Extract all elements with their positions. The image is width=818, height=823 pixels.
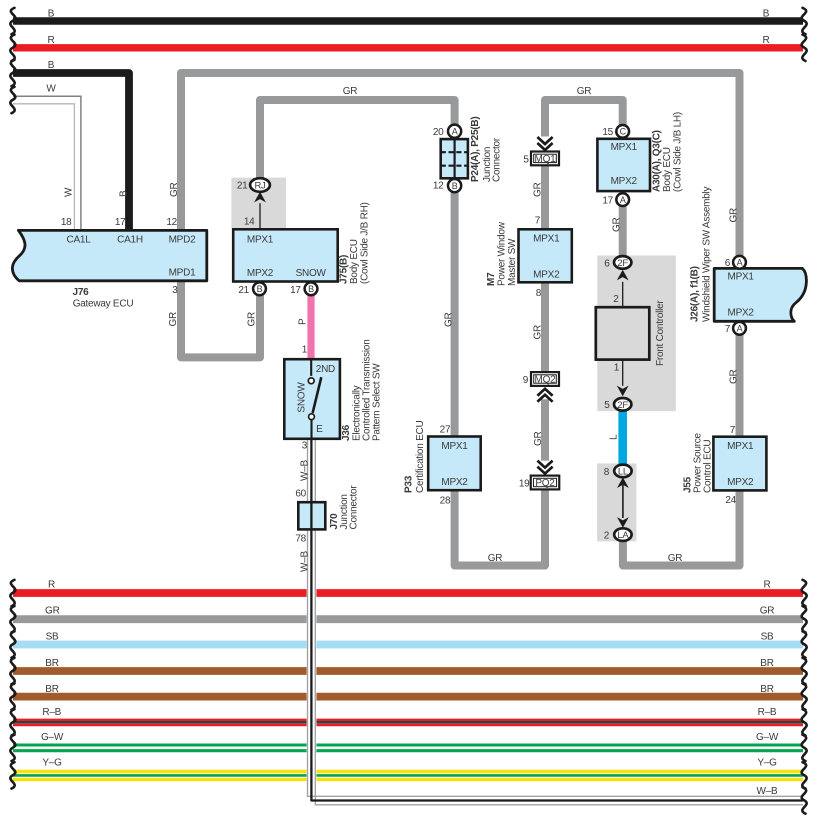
junction 2F top: [614, 256, 631, 269]
svg-text:Gateway ECU: Gateway ECU: [73, 298, 134, 309]
svg-text:Power Window: Power Window: [497, 221, 508, 286]
svg-text:J36: J36: [341, 424, 352, 441]
svg-text:27: 27: [440, 425, 451, 436]
svg-text:B: B: [763, 9, 770, 20]
svg-text:15: 15: [602, 127, 613, 138]
wire break symbol: [10, 35, 15, 61]
svg-text:Connector: Connector: [349, 485, 360, 530]
svg-text:GR: GR: [729, 208, 740, 223]
svg-text:1: 1: [302, 345, 308, 356]
pin circle A at A30: [616, 193, 629, 206]
svg-text:R–B: R–B: [42, 707, 61, 718]
wire R bottom bus: [13, 589, 803, 597]
svg-text:MQ1: MQ1: [535, 154, 557, 165]
svg-text:2: 2: [604, 531, 610, 542]
svg-text:W–B: W–B: [300, 460, 311, 482]
junction RJ with arrow: [259, 203, 261, 229]
svg-text:7: 7: [725, 324, 731, 335]
wire break symbol: [802, 35, 807, 61]
junction connector J70: [298, 502, 325, 529]
svg-text:SB: SB: [46, 632, 59, 643]
svg-text:LL: LL: [618, 467, 628, 478]
svg-text:(Cowl Side J/B LH): (Cowl Side J/B LH): [673, 112, 684, 192]
svg-text:CA1L: CA1L: [66, 234, 91, 245]
wire break symbol: [10, 631, 15, 657]
front controller block: [622, 282, 624, 307]
svg-text:(Cowl Side J/B RH): (Cowl Side J/B RH): [360, 202, 371, 284]
wire break symbol: [802, 709, 807, 735]
shade LL-LA junction region: [597, 463, 636, 541]
svg-text:78: 78: [295, 534, 306, 545]
svg-text:R: R: [764, 579, 771, 590]
wire break symbol: [10, 709, 15, 735]
wire L blue 2F to LL: [618, 411, 627, 465]
svg-text:SNOW: SNOW: [297, 382, 308, 413]
svg-text:GR: GR: [169, 182, 180, 197]
svg-text:7: 7: [730, 425, 736, 436]
svg-text:17: 17: [115, 217, 126, 228]
svg-text:MPX1: MPX1: [728, 272, 755, 283]
svg-text:GR: GR: [444, 312, 455, 327]
svg-text:B: B: [308, 284, 314, 294]
svg-text:MPX2: MPX2: [441, 477, 468, 488]
svg-text:R: R: [48, 579, 55, 590]
junction connector P24(A) P25(B): [441, 139, 468, 178]
svg-text:18: 18: [61, 217, 72, 228]
svg-text:GR: GR: [343, 86, 358, 97]
connector J75(B) Body ECU: [233, 229, 338, 281]
svg-text:2F: 2F: [617, 400, 628, 411]
svg-text:Body ECU: Body ECU: [349, 239, 360, 284]
wire BR bottom bus 2: [13, 693, 803, 701]
wire break symbol: [802, 735, 807, 761]
svg-text:MQ2: MQ2: [535, 375, 557, 386]
svg-text:GR: GR: [533, 431, 544, 446]
svg-text:Pattern Select SW: Pattern Select SW: [372, 363, 383, 441]
svg-text:GR: GR: [533, 182, 544, 197]
svg-text:28: 28: [440, 496, 451, 507]
svg-text:CA1H: CA1H: [117, 234, 143, 245]
wire GR P24 to P33 MPX1: [451, 192, 459, 436]
svg-text:R: R: [763, 35, 770, 46]
svg-text:Y–G: Y–G: [757, 758, 777, 769]
pin circle B at J75 MPX2: [253, 282, 266, 295]
svg-text:GR: GR: [488, 553, 503, 564]
junction 2F bottom: [614, 398, 631, 411]
svg-text:24: 24: [725, 495, 736, 506]
svg-text:W: W: [64, 187, 75, 197]
svg-text:6: 6: [604, 258, 610, 269]
connector M7 Power Window Master SW: [519, 229, 572, 282]
connector J26(A) f1(B) Windshield Wiper SW Assembly: [714, 268, 806, 321]
svg-text:6: 6: [725, 258, 731, 269]
wire P pink J75 SNOW to J36: [307, 295, 314, 359]
shade Front Controller region: [597, 256, 676, 412]
svg-text:17: 17: [290, 285, 301, 296]
svg-text:W–B: W–B: [757, 786, 779, 797]
wire break symbol: [802, 683, 807, 709]
svg-text:GR: GR: [729, 369, 740, 384]
svg-text:PQ2: PQ2: [535, 478, 555, 489]
svg-text:B: B: [48, 9, 55, 20]
wire G-W bottom bus: [13, 744, 803, 747]
svg-text:MPX2: MPX2: [247, 268, 274, 279]
svg-text:BR: BR: [760, 684, 773, 695]
pin circle C at A30: [616, 125, 629, 138]
svg-text:A: A: [620, 195, 626, 205]
wire break symbol: [10, 60, 15, 86]
svg-text:MPX2: MPX2: [728, 308, 755, 319]
svg-text:MPX1: MPX1: [247, 234, 274, 245]
svg-text:8: 8: [536, 288, 542, 299]
svg-text:5: 5: [523, 154, 529, 165]
svg-text:C: C: [620, 127, 627, 137]
svg-text:B: B: [119, 190, 130, 197]
svg-text:J26(A), f1(B): J26(A), f1(B): [690, 266, 701, 322]
svg-text:1: 1: [614, 362, 620, 373]
svg-text:M7: M7: [486, 272, 497, 286]
svg-text:12: 12: [166, 217, 177, 228]
wire break symbol: [10, 658, 15, 684]
svg-text:J76: J76: [73, 287, 90, 298]
shade behind RJ junction: [231, 178, 286, 229]
svg-text:A: A: [737, 324, 743, 334]
svg-text:Body ECU: Body ECU: [662, 147, 673, 192]
svg-text:GR: GR: [577, 86, 592, 97]
pin circle A at J26 top: [733, 256, 746, 269]
svg-text:19: 19: [519, 478, 530, 489]
svg-text:MPX1: MPX1: [727, 441, 754, 452]
svg-text:2F: 2F: [617, 258, 628, 269]
wire break symbol: [802, 762, 807, 788]
svg-text:L: L: [609, 434, 620, 440]
svg-text:R: R: [48, 35, 55, 46]
svg-text:MPD1: MPD1: [169, 268, 196, 279]
wire break symbol: [10, 580, 15, 606]
svg-text:A30(A), Q3(C): A30(A), Q3(C): [652, 130, 663, 192]
shielded junction MQ1: [537, 137, 552, 144]
wire break symbol: [10, 735, 15, 761]
svg-text:GR: GR: [668, 553, 683, 564]
svg-text:W–B: W–B: [300, 551, 311, 573]
wire break symbol: [10, 8, 15, 34]
svg-text:14: 14: [244, 217, 255, 228]
svg-text:MPX1: MPX1: [441, 441, 468, 452]
svg-text:R–B: R–B: [758, 707, 777, 718]
shielded junction PQ2: [537, 461, 552, 468]
svg-text:SB: SB: [761, 632, 774, 643]
svg-text:MPD2: MPD2: [169, 234, 196, 245]
shielded junction MQ2: [531, 372, 559, 386]
wire R-B bottom bus: [13, 719, 803, 721]
svg-text:BR: BR: [760, 658, 773, 669]
svg-text:G–W: G–W: [41, 732, 64, 743]
wire break symbol: [802, 580, 807, 606]
svg-text:J75(B): J75(B): [339, 255, 350, 284]
pin circle B at P24: [448, 179, 461, 192]
svg-text:GR: GR: [612, 217, 623, 232]
svg-text:17: 17: [602, 195, 613, 206]
svg-text:A: A: [737, 258, 743, 268]
pin circle A at P24: [448, 125, 461, 138]
svg-text:LA: LA: [617, 530, 629, 541]
svg-text:GR: GR: [760, 606, 775, 617]
junction LL-LA with double arrow: [622, 485, 624, 518]
wire GR M7 MPX2 to MQ2: [541, 282, 549, 372]
connector J76 Gateway ECU: [12, 230, 206, 280]
wire B to J76 CA1H: [13, 73, 129, 229]
svg-text:GR: GR: [168, 312, 179, 327]
svg-text:P24(A), P25(B): P24(A), P25(B): [470, 117, 481, 182]
wire break symbol: [10, 87, 15, 113]
svg-text:A: A: [452, 127, 458, 137]
svg-text:Certification ECU: Certification ECU: [415, 421, 426, 493]
wire GR U-run P33 MPX2 to PQ2 chain: [455, 490, 545, 566]
svg-text:3: 3: [302, 441, 308, 452]
wire GR J26 MPX2 to J55 MPX1: [736, 335, 744, 437]
pin circle B at J75 SNOW: [305, 282, 318, 295]
wire GR U-run LA to J55 MPX2: [623, 490, 740, 565]
switch contact lines J36: [310, 359, 312, 376]
wire GR MQ1 to M7 MPX1: [541, 166, 549, 230]
svg-text:3: 3: [172, 285, 178, 296]
svg-text:GR: GR: [45, 606, 60, 617]
svg-text:SNOW: SNOW: [296, 268, 327, 279]
wire break symbol: [10, 683, 15, 709]
wire GR MQ2 to PQ2: [541, 399, 549, 460]
svg-text:5: 5: [604, 400, 610, 411]
svg-text:7: 7: [535, 216, 541, 227]
svg-text:B: B: [48, 60, 55, 71]
svg-text:BR: BR: [45, 658, 58, 669]
svg-text:20: 20: [433, 127, 444, 138]
svg-text:P33: P33: [404, 475, 415, 493]
wire B top bus: [13, 17, 803, 25]
pin circle A at J26 bottom: [733, 322, 746, 335]
svg-text:Front Controller: Front Controller: [655, 300, 666, 366]
wire GR main run J76 MPD2 to J26: [181, 73, 740, 256]
svg-text:W: W: [46, 84, 56, 95]
svg-text:BR: BR: [45, 684, 58, 695]
wire GR run RJ to P24 connector: [260, 100, 455, 179]
svg-text:Master SW: Master SW: [507, 238, 518, 286]
svg-text:Control ECU: Control ECU: [703, 440, 714, 493]
wire GR bottom bus: [13, 615, 803, 623]
svg-text:G–W: G–W: [756, 732, 779, 743]
wire break symbol: [802, 8, 807, 34]
svg-text:B: B: [452, 181, 458, 191]
svg-text:21: 21: [238, 285, 249, 296]
svg-text:8: 8: [604, 467, 610, 478]
wire break symbol: [802, 787, 807, 813]
svg-text:Windshield Wiper SW Assembly: Windshield Wiper SW Assembly: [702, 186, 713, 322]
svg-text:21: 21: [237, 181, 248, 192]
wire SB bottom bus: [13, 641, 803, 649]
svg-text:2: 2: [613, 294, 619, 305]
wire break symbol: [10, 606, 15, 632]
svg-text:E: E: [316, 424, 323, 435]
wire Y-G bottom bus: [13, 770, 803, 773]
svg-text:Connector: Connector: [492, 137, 503, 182]
svg-text:RJ: RJ: [254, 181, 266, 192]
arrow into 2F bottom: [617, 386, 629, 397]
svg-text:2ND: 2ND: [316, 364, 335, 375]
switch J36 ECT pattern select: [284, 359, 340, 439]
wire W-B from J36 through J70 to bottom bus: [307, 439, 317, 801]
svg-text:MPX2: MPX2: [611, 176, 638, 187]
wire W to J76 CA1L: [13, 96, 81, 229]
wire break symbol: [10, 762, 15, 788]
svg-text:60: 60: [295, 489, 306, 500]
svg-text:9: 9: [523, 375, 529, 386]
wire GR U-run J76 MPD1 to J75 MPX2: [181, 282, 260, 357]
arrow into 2F top: [617, 270, 629, 281]
svg-text:GR: GR: [533, 325, 544, 340]
connector P33 Certification ECU: [428, 437, 481, 491]
wire BR bottom bus 1: [13, 667, 803, 675]
connector A30(A) Q3(C) Body ECU: [597, 139, 650, 191]
wire GR run to MQ1 and A30: [545, 100, 623, 137]
svg-text:P: P: [298, 318, 309, 325]
svg-text:GR: GR: [247, 312, 258, 327]
svg-text:MPX2: MPX2: [727, 477, 754, 488]
wire GR A30 pin17 to front controller 2F: [619, 206, 627, 256]
svg-text:B: B: [257, 284, 263, 294]
wire break symbol: [802, 631, 807, 657]
svg-text:12: 12: [433, 181, 444, 192]
svg-text:Y–G: Y–G: [42, 758, 62, 769]
wire break symbol: [802, 606, 807, 632]
connector J55 Power Source Control ECU: [713, 437, 766, 491]
svg-text:MPX1: MPX1: [533, 234, 560, 245]
wire break symbol: [802, 658, 807, 684]
svg-text:MPX1: MPX1: [611, 142, 638, 153]
wire R bus: [13, 44, 803, 51]
svg-text:MPX2: MPX2: [533, 270, 560, 281]
